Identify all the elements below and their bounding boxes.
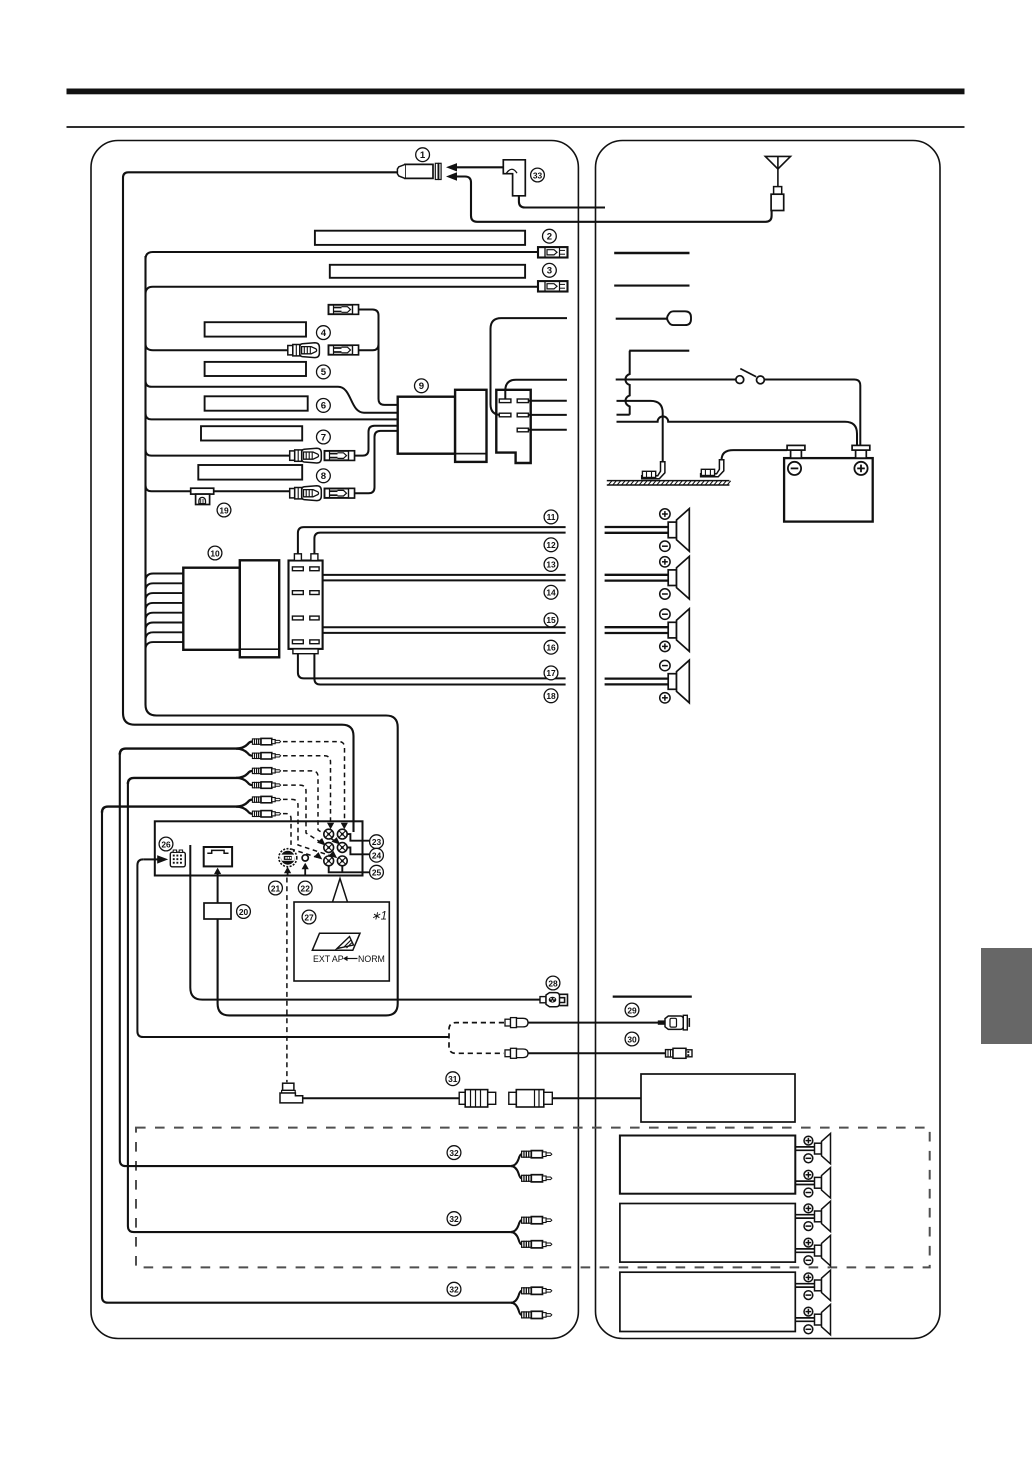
amplifier box 3 (620, 1272, 795, 1331)
svg-text:17: 17 (546, 668, 556, 678)
callout pointer (333, 879, 348, 903)
option dashed box (136, 1128, 930, 1268)
drop wire with break squiggles (626, 351, 630, 415)
arrow up into 22 (304, 868, 306, 876)
switch icon 27 (312, 933, 360, 950)
wire 7 (146, 450, 290, 456)
vehicle connector C outline (496, 390, 530, 463)
svg-text:30: 30 (627, 1034, 637, 1044)
ground hatching (607, 481, 731, 485)
label 19 (217, 503, 231, 517)
arrow 3b (314, 852, 323, 859)
rca plug 3b (252, 811, 280, 817)
label 3 (543, 263, 557, 277)
wire 8b (214, 490, 290, 492)
loop wire 7 to power block (354, 426, 397, 456)
harness connector 10 mate (240, 560, 279, 657)
label 17 (544, 666, 558, 680)
rca pigtail cable 3 (102, 800, 252, 813)
speaker 3 wires+speaker (605, 609, 690, 652)
connector 28 (540, 993, 568, 1007)
car antenna (765, 156, 790, 210)
amp speaker 2 (795, 1168, 830, 1198)
female spade 7 (290, 448, 322, 463)
battery plus terminal (856, 450, 867, 458)
label 23 (370, 835, 384, 849)
pin R3 (517, 428, 528, 432)
label 24 (370, 848, 384, 862)
cable 32a split (511, 1154, 522, 1166)
label 1 (416, 148, 430, 162)
dashed route 1a (283, 742, 345, 822)
wire 8a (146, 485, 191, 491)
wire 17 (298, 644, 566, 679)
svg-text:15: 15 (546, 615, 556, 625)
svg-text:22: 22 (301, 883, 311, 893)
label 13 (544, 558, 558, 572)
rca pigtail cable 2 (128, 771, 252, 784)
power connector 9 mate (455, 390, 486, 462)
label box 3 (330, 265, 525, 278)
arrow 1a (341, 823, 348, 830)
power wire R3 (529, 429, 567, 431)
dashed junction bracket (449, 1023, 504, 1054)
rca plug 32b lower (522, 1241, 552, 1248)
connector 30 right (666, 1048, 693, 1058)
pin R1 (517, 399, 528, 403)
label 4 (317, 326, 331, 340)
label 32b (447, 1212, 461, 1226)
arrow into socket upper (446, 163, 457, 171)
battery minus terminal (791, 450, 802, 458)
arrow up into 20 (217, 873, 219, 904)
ground strap 1 (642, 462, 665, 479)
rca plug 1a (252, 738, 280, 744)
speaker 4 wires+speaker (605, 660, 690, 703)
stub under drop (617, 414, 630, 416)
rca plug 32a upper (522, 1151, 552, 1158)
lead bundle spine (146, 256, 398, 1015)
wire stub into pin L2 (491, 318, 568, 415)
label 11 (544, 510, 558, 524)
jack 24L (324, 843, 334, 853)
jack 24R (337, 843, 347, 853)
label box 8 (198, 465, 302, 480)
svg-text:1: 1 (420, 150, 426, 161)
label 29 (625, 1003, 639, 1017)
antenna lug (667, 311, 691, 325)
antenna lug wire (616, 318, 667, 320)
label 12 (544, 538, 558, 552)
switch line right to battery plus (764, 380, 860, 446)
dashed route 1b (283, 756, 331, 822)
connector 3 (538, 281, 568, 291)
speaker connector pins (292, 567, 319, 644)
wire to 28 vertical (190, 845, 540, 1000)
male spade 4 (329, 345, 359, 354)
label 21 (269, 881, 283, 895)
wire 4 (146, 344, 288, 350)
branch into male 4 (358, 344, 378, 350)
fuse holder 19 (191, 488, 214, 504)
wire 16 (298, 620, 566, 633)
switch (736, 369, 764, 384)
label box 4 (205, 322, 306, 336)
bracket 24 (347, 848, 369, 855)
plug 31 (280, 1083, 303, 1103)
svg-text:6: 6 (321, 401, 326, 412)
amplifier box 1 (620, 1136, 795, 1194)
svg-text:24: 24 (372, 851, 382, 861)
plug 29 left (505, 1018, 528, 1028)
rca plug 2b (252, 782, 280, 788)
svg-text:10: 10 (210, 548, 220, 558)
connector 29 right (658, 1015, 690, 1030)
svg-text:31: 31 (448, 1074, 458, 1084)
svg-text:18: 18 (546, 691, 556, 701)
aux wire end (352, 800, 354, 832)
svg-text:∗1: ∗1 (371, 911, 387, 923)
wire 15 (314, 620, 565, 628)
female spade 4 (288, 343, 320, 358)
jack 23R (337, 829, 347, 839)
svg-text:21: 21 (271, 883, 281, 893)
label 9 (415, 379, 429, 393)
svg-text:8: 8 (321, 471, 327, 482)
battery (784, 458, 873, 521)
jack 23L (324, 829, 334, 839)
label box 6 (205, 396, 308, 410)
label 33 (531, 168, 545, 182)
svg-text:9: 9 (419, 381, 424, 392)
feed wire 32c (102, 811, 511, 1303)
wire 29-30 from deck (137, 859, 449, 1037)
svg-text:19: 19 (219, 505, 229, 515)
label 14 (544, 585, 558, 599)
wire to antenna socket (123, 172, 397, 832)
svg-text:23: 23 (372, 837, 382, 847)
inline connector 31 male (509, 1090, 553, 1107)
svg-text:EXT AP: EXT AP (313, 954, 344, 964)
processor box 31 (641, 1074, 795, 1122)
battery minus wire to ground (722, 450, 788, 460)
male bullet 4 upper (329, 305, 359, 314)
label 30 (625, 1032, 639, 1046)
label 7 (317, 430, 331, 444)
svg-text:14: 14 (546, 588, 556, 598)
head unit rear panel (155, 821, 363, 875)
svg-text:25: 25 (372, 868, 382, 878)
dashed route 2b (283, 785, 321, 842)
plug 30 left (505, 1048, 528, 1058)
svg-text:29: 29 (627, 1005, 637, 1015)
svg-text:32: 32 (449, 1148, 459, 1158)
loop wire 8 to power block (354, 431, 397, 493)
female spade 8 (290, 486, 322, 501)
dashed route 3b (283, 814, 317, 858)
rca plug 32b upper (522, 1217, 552, 1224)
label 8 (317, 469, 331, 483)
label 15 (544, 613, 558, 627)
wire 18 (314, 644, 565, 685)
jack icon 20 (204, 847, 232, 866)
label 20 (237, 905, 251, 919)
cable 31a (303, 1097, 460, 1099)
label 5 (317, 365, 331, 379)
harness connector 10 body (183, 568, 240, 650)
arrow 2a (332, 837, 341, 844)
svg-text:20: 20 (239, 907, 249, 917)
svg-text:12: 12 (546, 540, 556, 550)
amp speaker 1 (795, 1133, 830, 1163)
right panel box (596, 141, 941, 1339)
accessory stub L-wire (629, 350, 689, 352)
wire 11 (298, 527, 566, 560)
rca plug 2a (252, 768, 280, 774)
gray page tab (981, 948, 1032, 1044)
speaker 1 wires+speaker (605, 509, 690, 552)
wire 6 (146, 413, 398, 419)
power wire R2 (529, 414, 567, 416)
svg-text:4: 4 (321, 328, 327, 339)
pin L1 (499, 399, 511, 403)
label 10 (208, 546, 222, 560)
arrow 1b (327, 823, 334, 830)
wire 14 (314, 580, 565, 590)
cable 29 (528, 1022, 659, 1024)
svg-text:11: 11 (547, 512, 556, 522)
jack 25L (324, 856, 334, 866)
cable 32c split (511, 1291, 522, 1303)
label 25 (370, 865, 384, 879)
arrow 3a (329, 851, 338, 858)
switch line left (616, 379, 736, 381)
amp speaker 6 (795, 1304, 830, 1334)
svg-text:27: 27 (304, 912, 314, 922)
antenna socket 1 (397, 163, 441, 179)
label 16 (544, 640, 558, 654)
feed wire 32b (128, 782, 511, 1232)
rca plug 1b (252, 753, 280, 759)
arrow into 26 (143, 858, 158, 860)
wire 12 (314, 533, 565, 561)
male spade 7 (325, 451, 355, 460)
power wire R1 (529, 400, 567, 402)
box 27 (294, 902, 389, 981)
wire 3 (146, 287, 539, 294)
dashed route 3a (283, 799, 332, 856)
speaker connector bottom tab (293, 649, 318, 654)
amp speaker 5 (795, 1270, 830, 1300)
hole 22 (302, 855, 308, 861)
svg-text:33: 33 (533, 170, 543, 180)
rca plug 32c upper (522, 1287, 552, 1294)
amplifier box 2 (620, 1204, 795, 1263)
battery plus sign (854, 462, 867, 475)
inline connector 31 female (459, 1090, 496, 1107)
label box 7 (201, 426, 302, 440)
connector icon 26 (170, 850, 185, 867)
bracket 23 (347, 834, 369, 841)
harness leads fan (146, 574, 184, 650)
power connector 9 body (398, 397, 455, 454)
cable 32b split (511, 1220, 522, 1232)
label 22 (298, 881, 312, 895)
amp speaker 4 (795, 1235, 830, 1265)
wire from 33 to vehicle antenna stub (519, 196, 605, 208)
dashed line from 21 to 31 (286, 878, 288, 1083)
jack 25R (337, 856, 347, 866)
line2 to ground (617, 401, 663, 462)
arrow up into 21 (287, 872, 289, 876)
amp speaker 3 (795, 1201, 830, 1231)
cable 31b (552, 1097, 641, 1099)
bracket 25 (329, 866, 370, 873)
wire 5 (146, 381, 398, 413)
label box 5 (205, 362, 306, 376)
label 27 (302, 910, 316, 924)
label 18 (544, 689, 558, 703)
svg-text:2: 2 (547, 232, 552, 243)
connector 2 (538, 247, 568, 257)
box 20 (204, 903, 231, 919)
male spade 8 (325, 489, 355, 498)
stub wire 2 in right box (614, 252, 689, 254)
din icon 21 (279, 849, 297, 867)
battery minus sign (788, 462, 801, 475)
arrow into socket lower + antenna extension wire (446, 172, 457, 180)
rca plug 32c lower (522, 1311, 552, 1318)
dashed route 2a (283, 771, 336, 842)
arrow 2b (317, 838, 326, 846)
page title bar (67, 89, 965, 95)
line3 with hop to battery plus (617, 416, 858, 445)
speaker 2 wires+speaker (605, 556, 690, 599)
svg-text:26: 26 (161, 839, 171, 849)
label 31 (446, 1072, 460, 1086)
svg-text:32: 32 (449, 1285, 459, 1295)
label box 2 (315, 231, 525, 245)
left panel box (91, 141, 578, 1339)
loop wire 4 to power block (358, 310, 397, 405)
wire stub into pin L1 (505, 380, 567, 400)
stub wire 3 in right box (614, 285, 689, 287)
label 28 (546, 976, 560, 990)
svg-text:32: 32 (449, 1214, 459, 1224)
label 26 (159, 837, 173, 851)
label 6 (317, 399, 331, 413)
separator line right box (613, 995, 692, 997)
rca plug 3a (252, 796, 280, 802)
cable 30 (528, 1052, 666, 1054)
feed wire 32a (120, 753, 511, 1166)
pin R2 (517, 413, 528, 417)
wire 2 (146, 252, 539, 259)
svg-text:NORM: NORM (358, 954, 385, 964)
label 32c (447, 1282, 461, 1296)
wire 13 (298, 575, 566, 591)
svg-text:7: 7 (321, 432, 326, 443)
header rule (67, 126, 965, 128)
antenna plug 33 (503, 160, 525, 196)
svg-text:3: 3 (547, 266, 552, 277)
svg-text:13: 13 (546, 560, 556, 570)
rca pigtail cable 1 (120, 742, 253, 755)
label 2 (543, 229, 557, 243)
svg-text:28: 28 (548, 978, 558, 988)
svg-text:5: 5 (321, 367, 327, 378)
svg-text:16: 16 (546, 643, 556, 653)
speaker connector top tabs (294, 554, 301, 561)
label 32a (447, 1146, 461, 1160)
speaker connector outline (289, 561, 323, 649)
rca plug 32a lower (522, 1175, 552, 1182)
ground strap 2 (701, 460, 724, 477)
pin L2 (499, 413, 511, 417)
